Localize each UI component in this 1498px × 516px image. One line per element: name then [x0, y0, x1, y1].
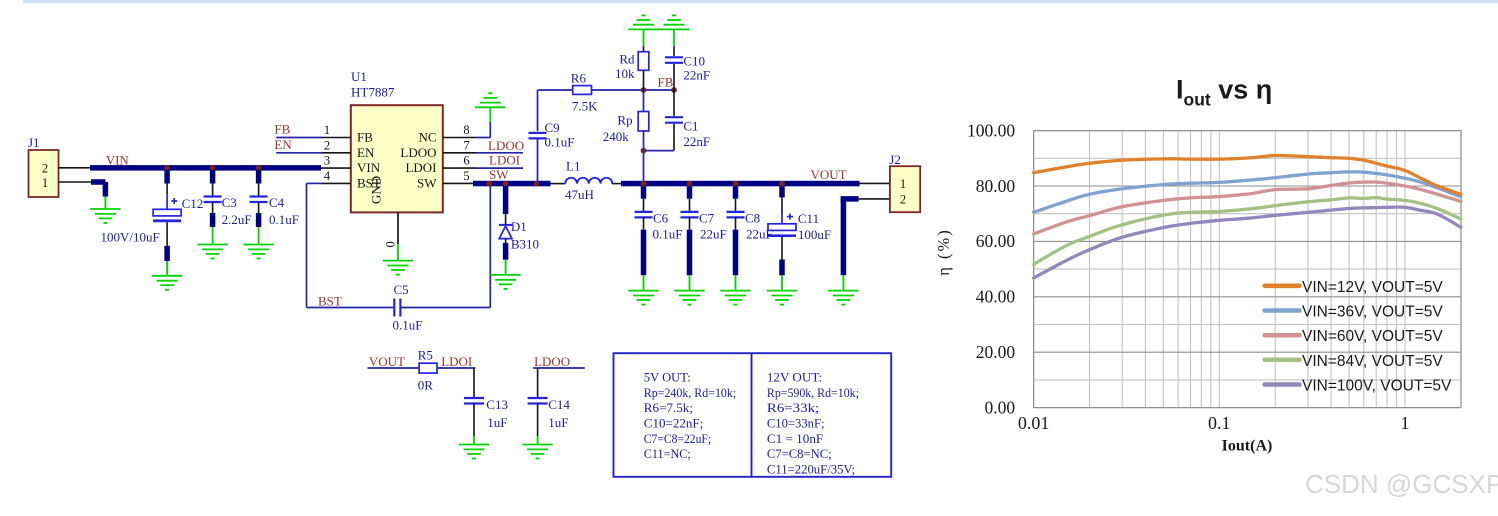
- svg-text:80.00: 80.00: [976, 176, 1016, 196]
- svg-text:47uH: 47uH: [565, 187, 594, 202]
- svg-text:12V OUT:: 12V OUT:: [767, 370, 822, 385]
- svg-text:C5: C5: [394, 282, 409, 297]
- svg-text:R6=33k;: R6=33k;: [767, 400, 819, 415]
- svg-text:Rp: Rp: [617, 113, 632, 128]
- svg-text:7: 7: [463, 138, 469, 152]
- svg-text:0R: 0R: [418, 378, 434, 393]
- svg-text:VIN=12V, VOUT=5V: VIN=12V, VOUT=5V: [1302, 279, 1443, 296]
- svg-text:0.1uF: 0.1uF: [393, 318, 423, 333]
- svg-text:C11: C11: [798, 211, 819, 226]
- svg-text:C11=220uF/35V;: C11=220uF/35V;: [767, 462, 855, 477]
- svg-text:C7=C8=22uF;: C7=C8=22uF;: [644, 431, 711, 446]
- svg-text:6: 6: [463, 154, 469, 168]
- svg-text:C7: C7: [699, 211, 715, 226]
- svg-text:240k: 240k: [603, 129, 630, 144]
- svg-text:BST: BST: [318, 294, 342, 309]
- svg-text:C10: C10: [683, 54, 705, 69]
- svg-text:40.00: 40.00: [976, 287, 1016, 307]
- svg-text:J1: J1: [28, 135, 40, 150]
- svg-text:C4: C4: [269, 195, 285, 210]
- svg-text:1uF: 1uF: [487, 415, 507, 430]
- svg-text:0.1uF: 0.1uF: [269, 212, 299, 227]
- svg-text:22uF: 22uF: [700, 227, 727, 242]
- svg-text:LDOI: LDOI: [489, 153, 520, 168]
- svg-text:7.5K: 7.5K: [572, 99, 598, 114]
- svg-text:R6=7.5k;: R6=7.5k;: [644, 400, 693, 415]
- svg-text:1: 1: [42, 176, 48, 190]
- svg-text:LDOO: LDOO: [534, 354, 570, 369]
- svg-text:100V/10uF: 100V/10uF: [101, 230, 160, 245]
- svg-text:5V OUT:: 5V OUT:: [644, 370, 691, 385]
- svg-text:2: 2: [42, 162, 48, 176]
- svg-text:η (%): η (%): [934, 228, 953, 276]
- svg-text:C1: C1: [683, 119, 698, 134]
- svg-text:Iout(A): Iout(A): [1222, 438, 1273, 455]
- svg-text:C12: C12: [182, 196, 204, 211]
- svg-text:R5: R5: [418, 348, 433, 363]
- svg-text:C3: C3: [222, 195, 237, 210]
- svg-text:20.00: 20.00: [976, 342, 1016, 362]
- svg-text:VIN=36V, VOUT=5V: VIN=36V, VOUT=5V: [1302, 304, 1443, 321]
- svg-text:60.00: 60.00: [976, 231, 1016, 251]
- svg-text:FB: FB: [658, 75, 674, 90]
- svg-text:Rd: Rd: [619, 52, 635, 67]
- svg-text:LDOI: LDOI: [441, 354, 472, 369]
- svg-text:1: 1: [900, 177, 906, 191]
- svg-text:C13: C13: [486, 397, 508, 412]
- svg-text:FB: FB: [274, 122, 290, 137]
- svg-text:VIN=60V, VOUT=5V: VIN=60V, VOUT=5V: [1302, 328, 1443, 345]
- svg-text:0.1: 0.1: [1208, 413, 1231, 433]
- svg-text:4: 4: [324, 169, 331, 183]
- svg-text:U1: U1: [351, 69, 367, 84]
- svg-text:0.00: 0.00: [984, 397, 1015, 417]
- svg-text:22nF: 22nF: [683, 134, 710, 149]
- svg-text:SW: SW: [489, 167, 509, 182]
- svg-text:1: 1: [324, 123, 330, 137]
- svg-text:VIN: VIN: [106, 153, 130, 168]
- svg-text:Rp=240k, Rd=10k;: Rp=240k, Rd=10k;: [644, 385, 736, 400]
- svg-text:GND: GND: [369, 176, 384, 204]
- svg-text:2.2uF: 2.2uF: [222, 212, 252, 227]
- svg-text:2: 2: [900, 193, 906, 207]
- svg-text:C1 = 10nF: C1 = 10nF: [767, 431, 823, 446]
- svg-text:0: 0: [384, 241, 398, 247]
- svg-text:LDOO: LDOO: [400, 145, 436, 160]
- svg-text:22nF: 22nF: [683, 68, 710, 83]
- svg-text:C9: C9: [545, 120, 560, 135]
- svg-text:VOUT: VOUT: [369, 354, 405, 369]
- svg-text:10k: 10k: [615, 66, 635, 81]
- svg-text:Rp=590k, Rd=10k;: Rp=590k, Rd=10k;: [767, 385, 859, 400]
- svg-text:C10=22nF;: C10=22nF;: [644, 416, 704, 431]
- svg-text:5: 5: [463, 169, 469, 183]
- svg-text:HT7887: HT7887: [351, 85, 395, 100]
- svg-text:SW: SW: [417, 175, 437, 190]
- svg-text:NC: NC: [418, 130, 436, 145]
- svg-text:100uF: 100uF: [798, 227, 831, 242]
- svg-text:EN: EN: [274, 137, 292, 152]
- svg-text:B310: B310: [511, 237, 539, 252]
- svg-text:VIN: VIN: [357, 160, 381, 175]
- svg-text:R6: R6: [571, 71, 587, 86]
- svg-text:C7=C8=NC;: C7=C8=NC;: [767, 446, 832, 461]
- svg-text:C10=33nF;: C10=33nF;: [767, 416, 825, 431]
- svg-text:J2: J2: [889, 152, 901, 167]
- svg-text:2: 2: [324, 138, 330, 152]
- svg-text:0.01: 0.01: [1018, 413, 1050, 433]
- svg-text:FB: FB: [357, 130, 373, 145]
- svg-text:C14: C14: [548, 397, 570, 412]
- svg-text:C8: C8: [745, 211, 760, 226]
- svg-text:VIN=100V, VOUT=5V: VIN=100V, VOUT=5V: [1302, 378, 1452, 395]
- svg-text:LDOO: LDOO: [488, 138, 524, 153]
- svg-text:C11=NC;: C11=NC;: [644, 446, 691, 461]
- svg-text:3: 3: [324, 154, 330, 168]
- svg-text:VOUT: VOUT: [811, 167, 847, 182]
- svg-text:0.1uF: 0.1uF: [653, 227, 683, 242]
- svg-text:EN: EN: [357, 145, 375, 160]
- svg-text:8: 8: [463, 123, 469, 137]
- svg-text:1: 1: [1401, 413, 1410, 433]
- svg-text:CSDN @GCSXP: CSDN @GCSXP: [1305, 469, 1498, 499]
- svg-text:C6: C6: [653, 211, 669, 226]
- svg-text:LDOI: LDOI: [405, 160, 436, 175]
- svg-text:L1: L1: [566, 159, 580, 174]
- svg-text:100.00: 100.00: [967, 120, 1015, 140]
- svg-text:0.1uF: 0.1uF: [545, 135, 575, 150]
- svg-text:VIN=84V, VOUT=5V: VIN=84V, VOUT=5V: [1302, 353, 1443, 370]
- svg-text:D1: D1: [511, 219, 527, 234]
- svg-text:1uF: 1uF: [548, 415, 568, 430]
